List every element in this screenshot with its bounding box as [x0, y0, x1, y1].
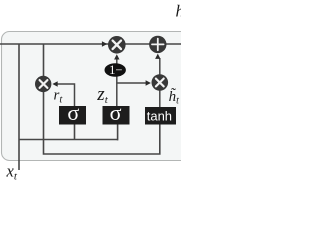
wire: V2 vertical h drop through reset-multiply down to bus B — [44, 44, 160, 154]
svg-text:σ: σ — [110, 100, 122, 125]
wire: sigma-r stub from bus A up to sigma box — [74, 124, 76, 140]
op: 1-minus ellipse — [105, 63, 126, 77]
svg-text:σ: σ — [67, 100, 79, 125]
wire: bus A horizontal [h,x] feed to sigma gates — [19, 139, 118, 141]
svg-text:xt: xt — [6, 161, 18, 181]
svg-text:h: h — [176, 2, 182, 21]
gate: sigma box r — [59, 100, 86, 125]
wire: z riser from sigma-z up to 1-minus ellipse — [116, 65, 118, 107]
wire: h(t-1) main horizontal line — [0, 43, 181, 45]
wire: multiply-2 output up with arrow into plus — [159, 58, 161, 75]
svg-text:1−: 1− — [109, 63, 122, 77]
wire: z branch right with arrow into multiply-2 — [117, 82, 148, 84]
op: multiply-2 circle (x) z*htilde — [152, 74, 169, 91]
wire: sigma-z stub from bus A up to sigma box — [117, 124, 119, 140]
GRU cell body (rounded rectangle) — [2, 32, 202, 161]
wire: V1 vertical from h-line down to x_t entry — [18, 44, 20, 170]
wire: tanh top stub up into multiply-2 — [159, 88, 161, 108]
gate: tanh box — [145, 107, 176, 125]
wire: arrowhead on h-line entering multiply-1 — [102, 41, 107, 46]
wire: arrow from 1-minus ellipse up into multiply-1 — [116, 57, 118, 65]
gate: sigma box z — [103, 100, 130, 125]
wire: r gate output up from sigma, corner, arrow into reset-multiply — [55, 84, 75, 107]
op: plus circle on h-line — [149, 36, 166, 53]
svg-text:tanh: tanh — [147, 108, 172, 123]
op: multiply-1 circle (x) on h-line — [108, 36, 126, 54]
op: reset multiply circle (x) on V2 — [35, 76, 51, 92]
